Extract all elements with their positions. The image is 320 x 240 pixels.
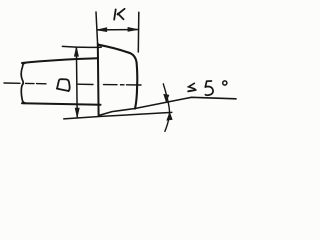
dimension D: bottom arrowhead (down) [75, 108, 79, 117]
centerline (dash-dot axis) [4, 83, 141, 85]
shaft break line (left end) [21, 63, 26, 104]
dimension D: bottom extension line merging into angle reference line [64, 112, 172, 119]
dimension D: top extension line [62, 45, 101, 48]
head outline: top edge, right side [98, 45, 137, 109]
dimension D: label D (rotated 90deg) [57, 79, 70, 91]
annotation: digit 5 [205, 81, 213, 95]
shaft body top edge [22, 58, 98, 63]
angle arc lower arrowhead (points up at reference line) [167, 113, 172, 121]
angle dimension arc [163, 84, 169, 131]
angle arc upper arrowhead (points down at slant line) [164, 94, 169, 102]
annotation: less-or-equal sign [188, 83, 196, 91]
dimension D: top arrowhead (up) [74, 47, 78, 56]
dimension K: left extension line [96, 12, 98, 44]
annotation: degree circle [223, 81, 227, 85]
dimension K: left arrowhead [97, 28, 107, 32]
dimension D: dimension line [75, 47, 78, 117]
dimension K: right extension line [137, 12, 140, 52]
dimension K: dimension line [97, 29, 137, 31]
head (flange) left edge [97, 44, 100, 116]
shaft body bottom edge [22, 103, 101, 105]
dimension K: label K [114, 9, 124, 20]
angle taper line (5 deg slant) with horizontal leader tail [99, 97, 236, 115]
dimension K: right arrowhead [128, 27, 138, 31]
